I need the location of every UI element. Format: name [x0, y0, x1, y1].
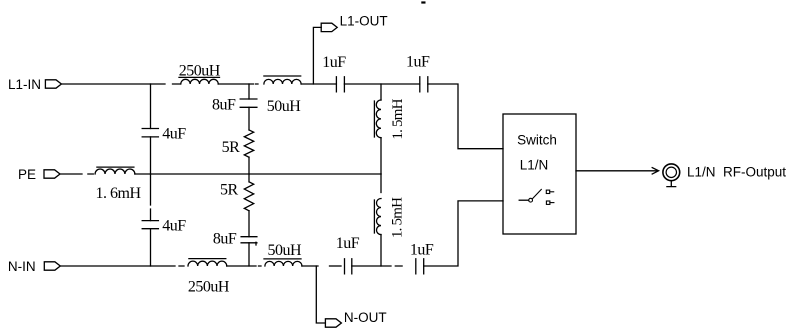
wire dash to C3	[330, 265, 342, 267]
switch symbol contact lower	[546, 201, 554, 204]
svg-text:1uF: 1uF	[410, 242, 434, 259]
svg-text:1. 5mH: 1. 5mH	[390, 197, 406, 238]
wire C3 to C4	[352, 265, 402, 267]
connector inner circle	[666, 167, 676, 177]
svg-text:L1/N: L1/N	[520, 157, 549, 172]
connector outer circle	[663, 164, 680, 181]
inductor 50uH (N)	[264, 242, 302, 266]
capacitor 8uF (upper)	[212, 97, 257, 114]
svg-text:50uH: 50uH	[268, 242, 303, 259]
svg-text:N-OUT: N-OUT	[344, 310, 387, 325]
wire R1 to PE	[248, 157, 250, 174]
connector stem	[667, 181, 676, 187]
inductor 250uH (L1)	[179, 63, 221, 84]
svg-text:L1-OUT: L1-OUT	[340, 14, 388, 29]
svg-text:8uF: 8uF	[213, 230, 237, 247]
svg-text:N-IN: N-IN	[8, 259, 36, 274]
wire shunt chain left upper	[150, 84, 152, 129]
wire riser to L1-OUT	[313, 27, 321, 84]
wire 50uH to C1	[301, 83, 336, 85]
wire 250uH to 50uH (N)	[227, 265, 261, 267]
terminal L1-IN	[45, 80, 61, 88]
switch box U1	[503, 114, 576, 234]
resistor 5R (upper)	[222, 130, 254, 157]
wire L1 to 1.5mH upper	[380, 84, 382, 100]
terminal N-OUT	[325, 319, 341, 327]
inductor 1.5mH (upper)	[374, 98, 406, 139]
svg-text:L1/N RF-Output: L1/N RF-Output	[687, 165, 786, 180]
terminal N-IN	[44, 262, 60, 270]
wire riser to N-OUT	[316, 266, 325, 323]
terminal PE	[44, 170, 60, 178]
svg-text:5R: 5R	[220, 182, 239, 199]
svg-text:4uF: 4uF	[162, 217, 186, 234]
svg-text:Switch: Switch	[517, 133, 557, 148]
wire 4uF to PE	[150, 137, 152, 174]
svg-text:250uH: 250uH	[179, 63, 221, 80]
inductor 250uH (N)	[188, 259, 230, 296]
inductor 1.6mH (PE)	[95, 167, 141, 202]
wire switch output	[576, 170, 658, 172]
wire L1 to 8uF upper	[248, 84, 250, 99]
wire 1.5mH to N	[380, 235, 382, 266]
wire 1.5mH to PE junction	[380, 138, 382, 174]
wire PE junction to 1.5mH lower	[380, 174, 382, 193]
wire PE down to 4uF lower	[150, 174, 152, 221]
svg-text:1uF: 1uF	[322, 54, 346, 71]
wire L1 into switch	[428, 84, 503, 149]
capacitor 8uF (lower)	[213, 230, 257, 247]
capacitor 1uF (L1 first)	[322, 54, 346, 92]
svg-text:1uF: 1uF	[406, 53, 430, 70]
svg-text:1uF: 1uF	[336, 235, 360, 252]
wire R2 to 8uF lower	[248, 211, 250, 237]
wire 8uF to R1	[248, 107, 250, 130]
switch symbol blade	[532, 189, 541, 199]
svg-text:4uF: 4uF	[162, 126, 186, 143]
svg-text:50uH: 50uH	[267, 98, 302, 115]
inductor 50uH (L1)	[264, 76, 301, 115]
wire L1-IN to 250uH	[61, 83, 180, 85]
wire C1 to C2	[344, 83, 419, 85]
wire N into switch	[424, 201, 503, 266]
inductor 1.5mH (lower)	[374, 197, 405, 238]
switch symbol contact upper	[546, 190, 553, 193]
wire PE to 1.6mH	[60, 173, 93, 175]
svg-text:1. 5mH: 1. 5mH	[390, 98, 406, 139]
wire 50uH to junction N-OUT	[302, 265, 318, 267]
terminal L1-OUT	[321, 23, 337, 31]
resistor 5R (lower)	[220, 174, 254, 211]
wire 250uH to 50uH	[218, 83, 258, 85]
capacitor 1uF (L1 second)	[406, 53, 430, 91]
svg-text:8uF: 8uF	[212, 97, 236, 114]
arrowhead output	[652, 168, 658, 174]
wire N-IN to 250uH	[60, 265, 184, 267]
wire 4uF to N	[150, 229, 152, 266]
svg-text:PE: PE	[18, 167, 36, 182]
switch symbol pole circle	[529, 198, 533, 202]
capacitor 4uF (lower)	[142, 217, 186, 234]
svg-text:L1-IN: L1-IN	[8, 77, 41, 92]
svg-text:250uH: 250uH	[188, 278, 230, 295]
capacitor 1uF (N second)	[410, 242, 434, 274]
switch symbol pole lead	[519, 199, 529, 201]
wire 8uF to N	[249, 242, 256, 266]
capacitor 4uF (upper)	[142, 126, 186, 143]
wire PE bus	[135, 173, 381, 175]
stray mark top	[421, 1, 425, 3]
capacitor 1uF (N first)	[336, 235, 360, 274]
svg-text:1. 6mH: 1. 6mH	[96, 185, 142, 202]
svg-text:5R: 5R	[222, 139, 241, 156]
